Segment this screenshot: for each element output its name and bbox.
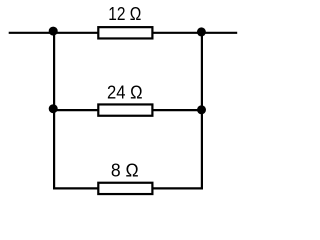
- node B: top-right junction: [197, 27, 206, 36]
- svg-text:8 Ω: 8 Ω: [111, 160, 139, 180]
- node C: middle-left junction: [49, 104, 58, 113]
- wire: middle horizontal branch: [54, 109, 202, 111]
- resistor R3 body: [98, 183, 152, 194]
- node A: top-left junction: [49, 27, 58, 36]
- node D: middle-right junction: [197, 105, 206, 114]
- wire: left vertical bus: [53, 32, 55, 190]
- wire: right vertical bus: [201, 32, 203, 190]
- svg-text:12 Ω: 12 Ω: [108, 4, 141, 24]
- svg-text:24 Ω: 24 Ω: [107, 82, 143, 102]
- wire: bottom horizontal branch: [54, 187, 202, 189]
- resistor R1 body: [98, 27, 152, 38]
- wire: top horizontal rail: [9, 32, 238, 34]
- resistor R2 body: [98, 104, 152, 115]
